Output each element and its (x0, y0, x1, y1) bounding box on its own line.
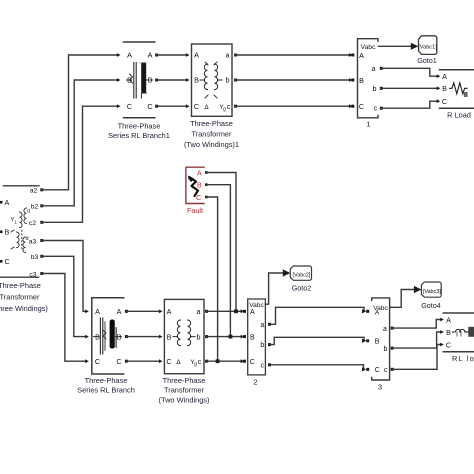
wire VI2.b to VI3.B (270, 337, 365, 344)
svg-text:A: A (446, 315, 451, 324)
svg-text:B: B (194, 76, 199, 85)
RL1 output port A (155, 54, 158, 57)
svg-text:d: d (27, 209, 30, 215)
svg-text:Goto1: Goto1 (417, 56, 437, 65)
VI1 out a (380, 67, 383, 70)
VI1 out c (380, 107, 383, 110)
wire VI1.c to RLoad.C (381, 101, 437, 108)
svg-text:[Vabc3]: [Vabc3] (423, 289, 441, 295)
svg-text:C: C (250, 359, 255, 366)
svg-text:A: A (442, 72, 447, 81)
XFMR2 out a (205, 310, 208, 313)
svg-text:Δ: Δ (176, 359, 181, 366)
svg-text:3: 3 (378, 383, 382, 392)
wire XFMR2.b to VI2.B (207, 336, 242, 338)
R Load resistor icon (450, 83, 468, 94)
wire VI1.b to RLoad.B (381, 87, 437, 89)
svg-text:(Two Windings)1: (Two Windings)1 (184, 140, 239, 149)
block: Goto1 (419, 36, 437, 55)
svg-text:B: B (446, 328, 451, 337)
svg-text:1: 1 (14, 219, 17, 224)
svg-text:Series RL Branch1: Series RL Branch1 (108, 131, 170, 140)
VI2 out c (268, 363, 271, 366)
svg-text:B: B (359, 76, 364, 85)
wire RL2.B to XFMR2.B (126, 336, 159, 338)
svg-text:b3: b3 (31, 254, 39, 261)
fault port A (205, 171, 208, 174)
wire VI2.c to VI3.C (270, 365, 365, 370)
RL1 output port C (155, 105, 158, 108)
wire fault.B to phase b junction (206, 185, 230, 337)
svg-text:c2: c2 (29, 220, 36, 227)
block: V-I measurement 2 (248, 299, 266, 375)
transformer1 coils icon (204, 64, 207, 90)
block: Three-Phase Series RL Branch (92, 298, 124, 374)
fault port B (205, 183, 208, 186)
VI3 in A (366, 310, 369, 313)
wire XFMR1.c to VI1.C (236, 105, 350, 107)
junction a (234, 309, 238, 313)
arrow into Goto1 (411, 43, 419, 50)
XFMR1 out c (234, 105, 237, 108)
svg-text:(Three Windings): (Three Windings) (0, 304, 48, 313)
svg-text:C: C (446, 340, 451, 349)
svg-text:Three-Phase: Three-Phase (118, 122, 161, 131)
RL2 out A (125, 310, 128, 313)
block: Three-Phase Fault (186, 167, 204, 203)
block: V-I measurement 1 (bracket) (358, 39, 379, 118)
junction b (229, 335, 233, 339)
svg-text:c: c (374, 104, 378, 113)
wire c2 to RL1.C (42, 106, 118, 222)
svg-text:B: B (250, 334, 255, 341)
XFMR1 out b (234, 79, 237, 82)
wire VI2.Vabc to Goto2 (265, 273, 283, 304)
VI3 out b (391, 347, 394, 350)
RL branch icon (bottom) (100, 318, 102, 354)
wire c3 to RL2.C (42, 274, 86, 362)
block: Three-Phase Transformer (Two Windings)1 (192, 44, 233, 116)
svg-text:a: a (383, 326, 387, 333)
VI3 out a (391, 327, 394, 330)
wire VI1.a to RLoad.A (381, 68, 437, 76)
wire RL2.A to XFMR2.A (126, 310, 159, 312)
svg-text:B: B (375, 339, 380, 346)
svg-text:[Vabc1]: [Vabc1] (418, 45, 437, 51)
svg-text:Three-Phase: Three-Phase (85, 376, 128, 385)
svg-text:Goto4: Goto4 (421, 301, 441, 310)
source out c3 (40, 272, 43, 275)
svg-text:C: C (5, 257, 10, 266)
svg-text:Three-Phase: Three-Phase (163, 376, 206, 385)
svg-text:b2: b2 (31, 204, 39, 211)
wire RL1.A to XFMR1.A (157, 54, 187, 56)
wire VI3.b to RLload.B (392, 332, 441, 348)
wire RL1.B to XFMR1.B (157, 79, 187, 81)
svg-text:a2: a2 (30, 188, 38, 195)
arrow into Goto4 (414, 286, 422, 293)
svg-text:C: C (95, 357, 100, 366)
svg-text:B: B (197, 183, 202, 190)
source out a2 (40, 188, 43, 191)
svg-text:a: a (372, 64, 376, 73)
svg-text:A: A (375, 310, 380, 317)
svg-text:Transformer: Transformer (164, 386, 205, 395)
XFMR1 out a (234, 54, 237, 57)
svg-text:Transformer: Transformer (192, 130, 233, 139)
svg-text:C: C (196, 195, 201, 202)
svg-text:c: c (384, 367, 388, 374)
svg-text:C: C (147, 102, 152, 111)
source out a3 (40, 239, 43, 242)
svg-text:C: C (166, 357, 171, 366)
svg-text:Transformer: Transformer (0, 293, 40, 302)
wire XFMR2.c to VI2.C (207, 360, 242, 362)
svg-text:C: C (116, 357, 121, 366)
svg-text:C: C (375, 367, 380, 374)
svg-text:a: a (197, 307, 201, 316)
svg-text:b: b (373, 84, 377, 93)
svg-text:a3: a3 (29, 238, 37, 245)
block: V-I measurement 3 (bracket) (372, 298, 390, 380)
RL2 out C (125, 360, 128, 363)
wire fault.A to phase a junction (206, 173, 236, 312)
VI3 out c (391, 368, 394, 371)
svg-text:A: A (167, 307, 172, 316)
svg-text:B: B (167, 332, 172, 341)
RL1 output port B (155, 79, 158, 82)
svg-text:Vabc: Vabc (249, 302, 264, 309)
block: RL load (443, 313, 474, 352)
wire XFMR1.b to VI1.B (236, 79, 350, 81)
wire VI2.a to VI3.A (270, 307, 365, 324)
wire Vabc to Goto1 (379, 45, 412, 47)
wire b2 to RL1.B (42, 80, 118, 206)
source out b3 (40, 255, 43, 258)
svg-text:g: g (194, 362, 197, 368)
svg-text:A: A (359, 51, 364, 60)
svg-text:Δ: Δ (204, 104, 209, 111)
block: Three-Phase Series RL Branch1 (124, 42, 155, 118)
svg-text:A: A (197, 170, 202, 177)
svg-text:B: B (5, 228, 10, 237)
fault lightning bolt (190, 178, 198, 197)
svg-text:b: b (384, 346, 388, 353)
svg-text:RL load: RL load (452, 354, 474, 363)
RL2 out B (125, 335, 128, 338)
wire fault.C to phase c junction (206, 197, 217, 361)
wire XFMR2.a to VI2.A (207, 310, 242, 312)
svg-text:a: a (226, 51, 230, 60)
svg-text:a: a (260, 322, 264, 329)
svg-text:1: 1 (366, 120, 370, 129)
VI2 out a (268, 323, 271, 326)
svg-text:A: A (5, 198, 10, 207)
svg-text:C: C (442, 97, 447, 106)
svg-text:g: g (223, 106, 226, 112)
source out b2 (40, 204, 43, 207)
svg-text:A: A (117, 307, 122, 316)
arrow into Goto2 (283, 269, 291, 276)
VI3 in C (366, 368, 369, 371)
svg-text:B: B (442, 84, 447, 93)
RL load icon (453, 331, 455, 333)
svg-text:Fault: Fault (187, 206, 203, 215)
svg-text:2: 2 (253, 377, 257, 386)
XFMR2 out c (205, 360, 208, 363)
source port C sq (0, 260, 2, 263)
RL branch1 icon (134, 63, 136, 99)
wire RL1.C to XFMR1.C (157, 105, 187, 107)
svg-text:c: c (198, 357, 202, 366)
XFMR2 out b (205, 335, 208, 338)
junction c (216, 359, 220, 363)
svg-text:Goto2: Goto2 (292, 284, 312, 293)
svg-text:Three-Phase: Three-Phase (190, 119, 233, 128)
svg-text:c: c (261, 362, 265, 369)
wire VI3.a to RLload.A (392, 320, 441, 329)
transformer2 coils icon (177, 320, 180, 346)
wire RL2.C to XFMR2.C (126, 360, 159, 362)
block: Goto4 (421, 282, 441, 297)
svg-text:b: b (260, 342, 264, 349)
wire a2 to RL1.A (42, 55, 118, 190)
wire XFMR1.a to VI1.A (236, 54, 350, 56)
wire b3 to RL2.B (42, 256, 86, 336)
svg-text:C: C (194, 102, 199, 111)
block: R Load (440, 70, 474, 108)
source port A sq (0, 201, 2, 204)
svg-text:C: C (127, 102, 132, 111)
block: Goto2 (290, 266, 311, 280)
svg-text:R Load: R Load (447, 111, 471, 120)
svg-text:Series RL Branch: Series RL Branch (77, 386, 135, 395)
source out c2 (40, 221, 43, 224)
block: Three-Phase Transformer (Two Windings) (164, 299, 204, 373)
svg-text:[Vabc2]: [Vabc2] (293, 272, 311, 278)
svg-text:(Two Windings): (Two Windings) (159, 395, 210, 404)
svg-text:c: c (227, 102, 231, 111)
svg-text:Three-Phase: Three-Phase (0, 281, 41, 290)
VI2 out b (268, 343, 271, 346)
svg-text:A: A (95, 307, 100, 316)
svg-text:A: A (148, 51, 153, 60)
wire a3 to RL2.A (42, 241, 86, 312)
VI3 in B (366, 339, 369, 342)
wire VI3.c to RLload.C (392, 345, 441, 370)
source port B sq (0, 231, 2, 234)
svg-text:A: A (250, 309, 255, 316)
svg-text:A: A (127, 51, 132, 60)
svg-text:c3: c3 (29, 271, 36, 278)
svg-text:C: C (359, 102, 364, 111)
block: Three-Phase Transformer (Three Windings) source (0, 186, 39, 277)
svg-text:A: A (194, 51, 199, 60)
wire VI3.Vabc to Goto4 (390, 290, 414, 308)
svg-text:b: b (197, 332, 201, 341)
svg-text:b: b (226, 76, 230, 85)
VI1 out b (380, 87, 383, 90)
svg-text:d: d (26, 236, 29, 242)
fault port C (205, 196, 208, 199)
